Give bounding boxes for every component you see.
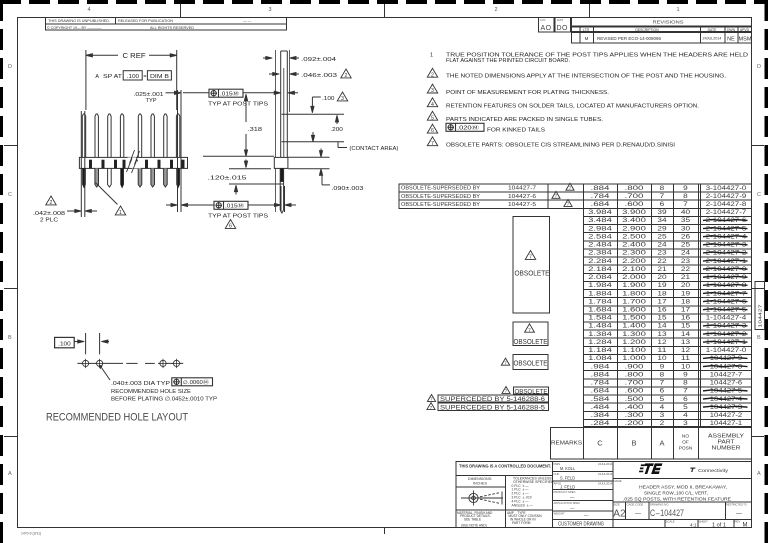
svg-text:23: 23 [681, 258, 691, 265]
svg-text:MSM: MSM [739, 37, 752, 43]
svg-text:BEFORE PLATING ∅.0452±.0010: BEFORE PLATING ∅.0452±.0010 TYP [111, 397, 217, 403]
svg-text:1.884: 1.884 [588, 290, 612, 297]
svg-text:.100: .100 [322, 96, 335, 102]
svg-text:7: 7 [431, 141, 434, 147]
svg-text:ALL RIGHTS RESERVED: ALL RIGHTS RESERVED [150, 26, 194, 30]
svg-text:DWN: DWN [727, 28, 736, 32]
svg-text:34: 34 [657, 217, 667, 224]
svg-text:2: 2 [431, 72, 434, 78]
svg-text:SHEET: SHEET [699, 520, 709, 524]
svg-text:TYP: TYP [146, 98, 157, 104]
svg-text:.800: .800 [625, 371, 645, 378]
svg-text:20: 20 [657, 274, 667, 281]
svg-text:3: 3 [341, 96, 344, 102]
svg-text:1.200: 1.200 [622, 339, 646, 346]
svg-text:.200: .200 [625, 420, 645, 427]
svg-text:1: 1 [676, 7, 679, 13]
svg-text:FLAT AGAINST THE PRINTED CIRCU: FLAT AGAINST THE PRINTED CIRCUIT BOARD. [446, 58, 570, 64]
svg-text:7: 7 [529, 254, 532, 260]
svg-text:19: 19 [681, 290, 691, 297]
svg-text:Connectivity: Connectivity [698, 468, 729, 473]
svg-text:C: C [597, 439, 603, 448]
svg-text:2-104427-9: 2-104427-9 [706, 193, 747, 200]
svg-text:.042±.008: .042±.008 [33, 211, 65, 217]
svg-text:23: 23 [657, 250, 667, 257]
svg-text:.384: .384 [591, 412, 611, 419]
svg-text:SP AT: SP AT [103, 74, 123, 80]
svg-text:.900: .900 [625, 363, 645, 370]
svg-text:29: 29 [657, 225, 667, 232]
svg-text:3: 3 [431, 88, 434, 94]
svg-text:2.300: 2.300 [622, 250, 646, 257]
svg-text:HEADER ASSY, MOD II, BREAKAWAY: HEADER ASSY, MOD II, BREAKAWAY, [639, 484, 727, 489]
svg-text:1.900: 1.900 [622, 282, 646, 289]
svg-text:24: 24 [681, 250, 691, 257]
svg-text:.100: .100 [127, 74, 140, 80]
svg-text:4: 4 [87, 7, 90, 13]
svg-text:20: 20 [681, 282, 691, 289]
svg-text:C: C [757, 192, 761, 198]
svg-text:1.400: 1.400 [622, 323, 646, 330]
svg-text:8: 8 [683, 193, 688, 200]
svg-text:.500: .500 [625, 396, 645, 403]
svg-text:.800: .800 [625, 185, 645, 192]
svg-text:39: 39 [657, 209, 667, 216]
svg-text:17: 17 [657, 298, 667, 305]
svg-text:3-104427-0: 3-104427-0 [706, 185, 747, 192]
svg-text:24JUL2014: 24JUL2014 [598, 462, 613, 466]
svg-text:2.200: 2.200 [622, 258, 646, 265]
svg-text:3: 3 [268, 7, 271, 13]
svg-text:18: 18 [681, 298, 691, 305]
svg-text:∅.0060Ⓜ: ∅.0060Ⓜ [183, 378, 209, 386]
svg-text:NAME: NAME [614, 479, 622, 483]
svg-text:SCALE: SCALE [666, 520, 675, 524]
svg-text:PARTS INDICATED ARE PACKED IN: PARTS INDICATED ARE PACKED IN SINGLE TUB… [446, 117, 604, 123]
svg-text:13: 13 [681, 339, 691, 346]
svg-text:2.100: 2.100 [622, 266, 646, 273]
svg-text:SUPERCEDED BY 5-146288-5: SUPERCEDED BY 5-146288-5 [440, 405, 546, 411]
svg-text:—: — [584, 513, 589, 518]
svg-text:22: 22 [657, 258, 667, 265]
svg-text:SIZE: SIZE [614, 502, 620, 506]
svg-text:1-104427-0: 1-104427-0 [706, 347, 747, 354]
svg-text:4: 4 [660, 404, 665, 411]
svg-text:15: 15 [657, 315, 667, 322]
svg-text:5: 5 [660, 396, 665, 403]
svg-text:TYP AT POST TIPS: TYP AT POST TIPS [208, 214, 269, 220]
svg-text:(SEE NOTE AND): (SEE NOTE AND) [461, 523, 487, 527]
svg-text:2.900: 2.900 [622, 225, 646, 232]
svg-text:1.500: 1.500 [622, 315, 646, 322]
svg-text:24JUL2014: 24JUL2014 [703, 37, 722, 41]
svg-text:3.400: 3.400 [622, 217, 646, 224]
svg-text:104427-6: 104427-6 [710, 380, 743, 387]
svg-text:8: 8 [660, 371, 665, 378]
svg-text:104427-1: 104427-1 [710, 420, 743, 427]
svg-text:8: 8 [683, 380, 688, 387]
svg-text:B: B [757, 335, 761, 341]
svg-text:7: 7 [528, 327, 531, 333]
svg-text:30: 30 [681, 225, 691, 232]
svg-text:FOR KINKED TAILS: FOR KINKED TAILS [487, 127, 545, 133]
svg-text:A: A [659, 439, 664, 448]
svg-text:NUMBER: NUMBER [712, 446, 742, 452]
svg-text:2: 2 [660, 420, 665, 427]
svg-text:2.584: 2.584 [588, 233, 612, 240]
svg-text:.120±.015: .120±.015 [208, 175, 247, 181]
svg-text:2.284: 2.284 [588, 258, 612, 265]
svg-text:2.500: 2.500 [622, 233, 646, 240]
svg-text:M: M [743, 523, 748, 529]
svg-text:.300: .300 [625, 412, 645, 419]
svg-text:6: 6 [660, 201, 665, 208]
svg-text:INCHES: INCHES [473, 482, 487, 486]
svg-text:.025±.001: .025±.001 [134, 92, 164, 98]
svg-text:REVISED PER ECO-14-009096: REVISED PER ECO-14-009096 [597, 36, 662, 41]
svg-text:1.300: 1.300 [622, 331, 646, 338]
svg-text:SUPERCEDED BY 5-146288-6: SUPERCEDED BY 5-146288-6 [440, 397, 546, 403]
svg-text:21: 21 [681, 274, 691, 281]
svg-text:.318: .318 [248, 127, 263, 133]
svg-text:A2: A2 [613, 509, 626, 520]
svg-text:A: A [95, 74, 99, 80]
svg-text:104427-7: 104427-7 [508, 186, 536, 192]
svg-text:=: = [143, 74, 146, 80]
svg-text:.200: .200 [330, 127, 343, 133]
svg-text:RETENTION FEATURES ON SOLDER T: RETENTION FEATURES ON SOLDER TAILS, LOCA… [446, 103, 700, 109]
svg-text:.600: .600 [625, 201, 645, 208]
svg-text:4: 4 [431, 102, 434, 108]
svg-text:12: 12 [681, 347, 691, 354]
svg-text:.484: .484 [591, 404, 611, 411]
svg-text:2.000: 2.000 [622, 274, 646, 281]
svg-text:14: 14 [681, 331, 691, 338]
svg-text:RECOMMENDED HOLE LAYOUT: RECOMMENDED HOLE LAYOUT [46, 412, 188, 424]
svg-text:B: B [8, 335, 12, 341]
svg-text:8: 8 [660, 185, 665, 192]
svg-text:2: 2 [345, 73, 348, 79]
svg-text:LTR: LTR [583, 28, 590, 32]
svg-text:19: 19 [657, 282, 667, 289]
svg-text:LOC: LOC [540, 18, 546, 22]
svg-text:.092±.004: .092±.004 [301, 57, 336, 63]
svg-text:A: A [8, 471, 12, 477]
svg-text:22: 22 [681, 266, 691, 273]
svg-text:WEIGHT: WEIGHT [554, 512, 565, 516]
svg-text:25: 25 [681, 242, 691, 249]
svg-text:1: 1 [119, 210, 122, 216]
svg-text:DO: DO [557, 25, 569, 32]
svg-text:24JUL2014: 24JUL2014 [598, 472, 613, 476]
svg-text:35: 35 [681, 217, 691, 224]
svg-text:2 PLC: 2 PLC [40, 218, 58, 224]
svg-text:2: 2 [50, 200, 53, 206]
svg-text:3.900: 3.900 [622, 209, 646, 216]
svg-text:DIMENSIONS:: DIMENSIONS: [468, 477, 492, 481]
svg-text:5: 5 [683, 404, 688, 411]
svg-text:—: — [736, 511, 742, 517]
svg-text:.090±.003: .090±.003 [331, 186, 363, 192]
svg-text:2.084: 2.084 [588, 274, 612, 281]
svg-text:11: 11 [657, 347, 667, 354]
svg-text:B: B [631, 439, 636, 448]
svg-text:.884: .884 [591, 371, 611, 378]
svg-text:.784: .784 [591, 193, 611, 200]
svg-text:THE NOTED DIMENSIONS APPLY AT: THE NOTED DIMENSIONS APPLY AT THE INTERS… [446, 74, 727, 80]
svg-text:1.284: 1.284 [588, 339, 612, 346]
svg-text:DIST: DIST [557, 18, 563, 22]
svg-text:1.484: 1.484 [588, 323, 612, 330]
svg-text:15: 15 [681, 323, 691, 330]
svg-text:TYP AT POST TIPS: TYP AT POST TIPS [208, 102, 269, 108]
svg-text:1.984: 1.984 [588, 282, 612, 289]
svg-text:NO: NO [682, 434, 689, 440]
svg-text:OBSOLETE: OBSOLETE [514, 361, 548, 368]
svg-text:OBSOLETE: OBSOLETE [515, 268, 550, 277]
svg-text:THIS DRAWING IS UNPUBLISHED.: THIS DRAWING IS UNPUBLISHED. [48, 19, 110, 23]
svg-text:9: 9 [660, 363, 665, 370]
svg-text:2.984: 2.984 [588, 225, 612, 232]
svg-text:OBSOLETE: OBSOLETE [515, 388, 548, 395]
svg-text:.600: .600 [625, 388, 645, 395]
svg-text:SINGLE ROW,.100 C/L, VERT,: SINGLE ROW,.100 C/L, VERT, [644, 491, 708, 496]
svg-text:10: 10 [681, 363, 691, 370]
svg-text:PART FORM: PART FORM [512, 521, 531, 525]
svg-text:REV: REV [735, 520, 741, 524]
svg-text:11: 11 [681, 355, 691, 362]
svg-text:17: 17 [681, 307, 691, 314]
svg-text:.684: .684 [591, 201, 611, 208]
svg-text:1: 1 [430, 52, 433, 58]
svg-text:—: — [570, 506, 575, 511]
svg-text:4:1: 4:1 [690, 522, 697, 527]
svg-text:REMARKS: REMARKS [551, 441, 583, 447]
svg-text:4: 4 [683, 412, 688, 419]
svg-text:21: 21 [657, 266, 667, 273]
svg-text:.015Ⓜ: .015Ⓜ [220, 89, 239, 97]
svg-text:1470-9 (3/11): 1470-9 (3/11) [21, 532, 41, 536]
svg-text:1 of 1: 1 of 1 [712, 522, 726, 528]
svg-text:104427-7: 104427-7 [710, 371, 743, 378]
svg-text:.884: .884 [591, 185, 611, 192]
svg-text:3: 3 [683, 420, 688, 427]
svg-text:6: 6 [431, 128, 434, 134]
svg-text:C: C [8, 192, 12, 198]
svg-text:1.000: 1.000 [622, 355, 646, 362]
svg-text:C REF: C REF [123, 51, 147, 60]
svg-text:3.484: 3.484 [588, 217, 612, 224]
svg-text:OBSOLETE-SUPERSEDED BY: OBSOLETE-SUPERSEDED BY [401, 202, 480, 208]
svg-text:104427-5: 104427-5 [508, 202, 536, 208]
svg-text:CUSTOMER DRAWING: CUSTOMER DRAWING [558, 522, 604, 528]
svg-text:—: — [570, 495, 575, 500]
svg-text:104427-2: 104427-2 [710, 412, 743, 419]
svg-text:RECOMMENDED HOLE SIZE: RECOMMENDED HOLE SIZE [111, 389, 191, 395]
svg-text:14: 14 [657, 323, 667, 330]
svg-text:40: 40 [681, 209, 691, 216]
svg-text:6: 6 [229, 223, 232, 229]
svg-text:104427: 104427 [757, 304, 763, 327]
svg-text:12: 12 [657, 339, 667, 346]
svg-text:2-104427-8: 2-104427-8 [706, 201, 747, 208]
svg-text:1.700: 1.700 [622, 298, 646, 305]
svg-text:S. FELD: S. FELD [560, 475, 575, 480]
svg-text:OF: OF [682, 440, 689, 446]
svg-text:DRAWING NO: DRAWING NO [650, 502, 669, 506]
svg-text:24: 24 [657, 242, 667, 249]
svg-text:—: — [635, 511, 641, 517]
svg-text:.025 SQ POSTS, WITH RETENTION: .025 SQ POSTS, WITH RETENTION FEATURE [623, 496, 731, 501]
svg-text:2.400: 2.400 [622, 242, 646, 249]
svg-text:POSN: POSN [679, 446, 693, 452]
svg-text:NE: NE [727, 37, 735, 43]
svg-text:DIM B: DIM B [150, 74, 170, 80]
svg-text:A: A [757, 471, 761, 477]
svg-text:APPLICATION SPEC: APPLICATION SPEC [554, 501, 581, 505]
svg-text:M. KOLL: M. KOLL [560, 466, 575, 471]
svg-text:1.584: 1.584 [588, 315, 612, 322]
svg-text:C – 104427: C – 104427 [650, 508, 684, 518]
svg-text:AO: AO [541, 25, 552, 32]
svg-text:APVD: APVD [740, 28, 750, 32]
svg-text:1.600: 1.600 [622, 307, 646, 314]
svg-text:M: M [585, 36, 589, 41]
svg-text:1.100: 1.100 [622, 347, 646, 354]
svg-text:OBSOLETE PARTS: OBSOLETE CIS S: OBSOLETE PARTS: OBSOLETE CIS STREAMLININ… [446, 142, 676, 148]
svg-text:.784: .784 [591, 380, 611, 387]
svg-text:7: 7 [683, 388, 688, 395]
svg-text:J. FELD: J. FELD [560, 485, 575, 490]
svg-text:RESTRICTED TO: RESTRICTED TO [726, 502, 747, 506]
svg-text:13: 13 [657, 331, 667, 338]
svg-text:.100: .100 [58, 341, 70, 347]
svg-text:— —: — — [243, 19, 252, 23]
svg-text:RELEASED FOR PUBLICATION: RELEASED FOR PUBLICATION [118, 19, 173, 23]
svg-text:16: 16 [681, 315, 691, 322]
svg-text:.046±.003: .046±.003 [301, 73, 337, 79]
svg-text:.684: .684 [591, 388, 611, 395]
svg-text:.700: .700 [625, 193, 645, 200]
svg-text:10: 10 [657, 355, 667, 362]
svg-text:REVISIONS: REVISIONS [653, 20, 684, 25]
svg-text:.284: .284 [591, 420, 611, 427]
svg-text:POINT OF MEASUREMENT FOR PLATI: POINT OF MEASUREMENT FOR PLATING THICKNE… [446, 90, 610, 96]
svg-text:2.384: 2.384 [588, 250, 612, 257]
svg-text:3.984: 3.984 [588, 209, 612, 216]
svg-text:OBSOLETE-SUPERSEDED BY: OBSOLETE-SUPERSEDED BY [401, 186, 480, 192]
svg-text:.984: .984 [591, 363, 611, 370]
svg-text:5: 5 [431, 115, 434, 121]
svg-text:1-104427-4: 1-104427-4 [706, 315, 747, 322]
svg-text:D: D [757, 64, 761, 70]
svg-text:6: 6 [660, 388, 665, 395]
svg-text:9: 9 [683, 185, 688, 192]
svg-text:1.784: 1.784 [588, 298, 612, 305]
svg-text:SEE TABLE: SEE TABLE [464, 518, 481, 522]
svg-text:.015Ⓜ: .015Ⓜ [225, 202, 244, 210]
svg-text:25: 25 [657, 233, 667, 240]
svg-text:1.184: 1.184 [588, 347, 612, 354]
svg-text:1.384: 1.384 [588, 331, 612, 338]
svg-text:CAGE CODE: CAGE CODE [627, 502, 644, 506]
svg-text:DESCRIPTION: DESCRIPTION [635, 28, 659, 32]
svg-text:1.084: 1.084 [588, 355, 612, 362]
svg-text:D: D [8, 64, 12, 70]
svg-text:.020Ⓜ: .020Ⓜ [457, 124, 479, 132]
svg-text:16: 16 [657, 307, 667, 314]
svg-text:OBSOLETE: OBSOLETE [514, 339, 548, 346]
svg-text:.040±.003 DIA TYP: .040±.003 DIA TYP [111, 381, 171, 387]
svg-text:7: 7 [660, 380, 665, 387]
svg-text:1.800: 1.800 [622, 290, 646, 297]
svg-text:3: 3 [660, 412, 665, 419]
svg-text:THIS DRAWING IS A CONTROLLED D: THIS DRAWING IS A CONTROLLED DOCUMENT. [459, 463, 551, 468]
svg-text:2-104427-7: 2-104427-7 [706, 209, 747, 216]
svg-text:6: 6 [683, 396, 688, 403]
svg-text:26: 26 [681, 233, 691, 240]
svg-text:9: 9 [683, 371, 688, 378]
svg-text:7: 7 [683, 201, 688, 208]
svg-text:2.184: 2.184 [588, 266, 612, 273]
svg-text:.700: .700 [625, 380, 645, 387]
svg-text:7: 7 [660, 193, 665, 200]
svg-text:OBSOLETE-SUPERSEDED BY: OBSOLETE-SUPERSEDED BY [401, 194, 480, 200]
svg-text:2: 2 [494, 7, 497, 13]
svg-text:© COPYRIGHT 19— BY ————: © COPYRIGHT 19— BY ———— [47, 26, 102, 30]
svg-text:.400: .400 [625, 404, 645, 411]
svg-text:(CONTACT AREA): (CONTACT AREA) [349, 146, 398, 152]
svg-text:ANGLES ± —: ANGLES ± — [512, 503, 534, 507]
svg-text:1.684: 1.684 [588, 307, 612, 314]
svg-text:2.484: 2.484 [588, 242, 612, 249]
svg-text:CHK: CHK [554, 472, 560, 476]
svg-text:.584: .584 [591, 396, 611, 403]
svg-text:104427-6: 104427-6 [508, 194, 536, 200]
svg-text:18: 18 [657, 290, 667, 297]
svg-text:24JUL2014: 24JUL2014 [598, 481, 613, 485]
svg-text:DATE: DATE [708, 28, 718, 32]
